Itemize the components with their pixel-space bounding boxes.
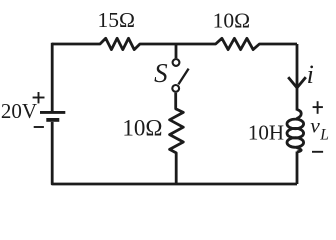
svg-text:L: L: [319, 126, 329, 143]
svg-text:20V: 20V: [1, 99, 37, 123]
svg-text:10H: 10H: [248, 121, 284, 145]
svg-text:15Ω: 15Ω: [98, 8, 135, 32]
svg-text:10Ω: 10Ω: [122, 116, 162, 141]
svg-text:v: v: [310, 113, 320, 137]
svg-text:10Ω: 10Ω: [213, 8, 250, 32]
svg-text:i: i: [307, 60, 314, 89]
svg-text:S: S: [154, 58, 168, 88]
